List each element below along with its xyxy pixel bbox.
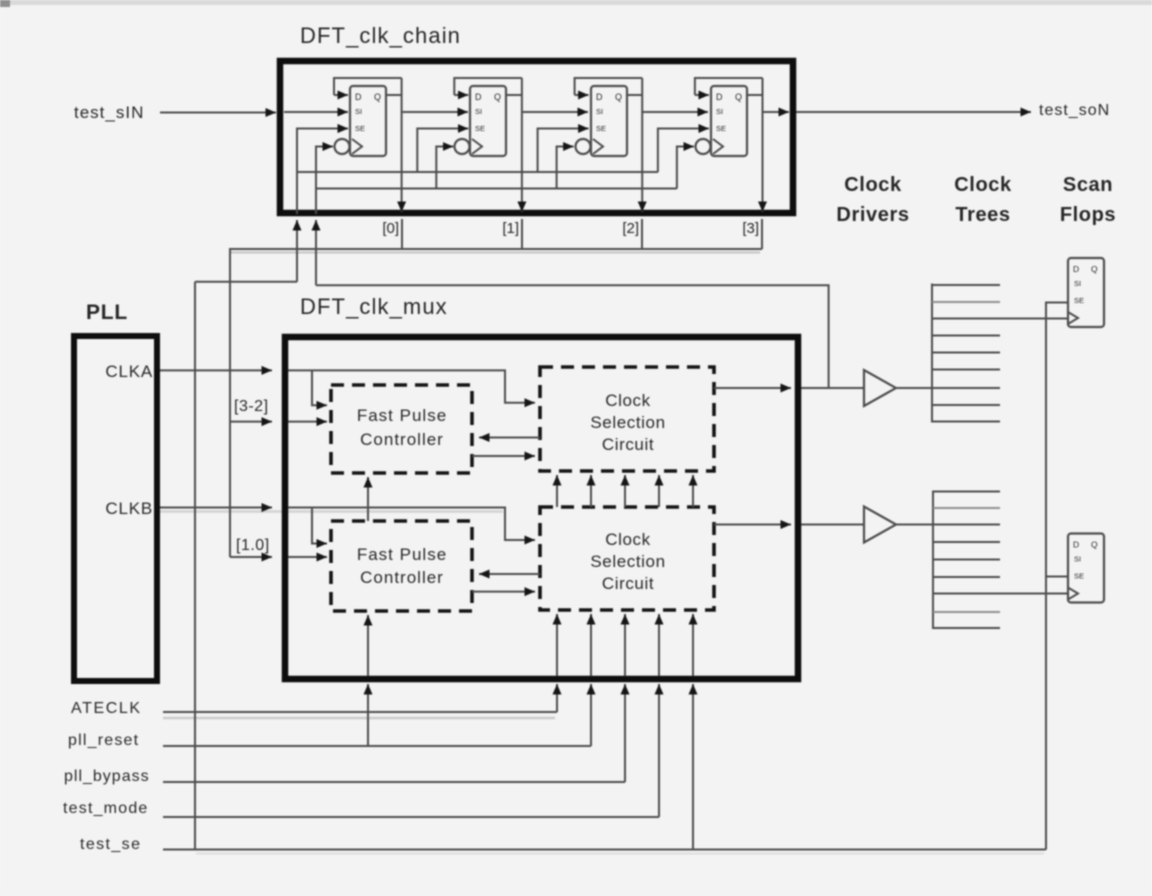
clock tree 1 [932,284,1068,423]
svg-text:Flops: Flops [1060,204,1116,226]
svg-text:DFT_clk_mux: DFT_clk_mux [300,294,448,319]
wire driver 1 to tree 1 [896,387,932,389]
wire test_se to SF2 SE [1046,576,1068,578]
block DFT_clk_chain [280,61,793,213]
wire clock riser into chain [315,220,317,285]
scan flip-flop FF3 of DFT_clk_chain [658,78,763,212]
wire CLKB to Clock Selection Circuit 2 [288,508,535,541]
svg-text:CLKA: CLKA [105,362,153,381]
svg-text:SI: SI [1074,555,1081,564]
wire SI link FF0-FF1 [402,111,468,113]
svg-text:ATECLK: ATECLK [71,700,142,717]
wire test_se to scan flops [1046,303,1068,850]
wire pll_reset [163,745,591,747]
svg-text:Selection: Selection [590,413,665,432]
svg-text:test_mode: test_mode [63,800,149,817]
svg-text:test_sIN: test_sIN [74,103,144,122]
svg-text:test_se: test_se [80,836,141,853]
wire test_se [163,849,1046,851]
wire test_se into mux bottom [692,684,694,850]
svg-text:Trees: Trees [955,204,1010,226]
svg-text:SE: SE [1074,572,1084,581]
svg-text:Q: Q [1091,264,1098,274]
svg-text:[1]: [1] [502,220,519,237]
wire CLKA to Clock Selection Circuit 1 [288,370,535,402]
wire test_se to CSC2 [692,614,694,676]
wire pll_reset to FPC1 [367,477,369,521]
svg-text:Q: Q [494,92,501,102]
svg-text:Drivers: Drivers [836,204,909,226]
wire clk riser inside chain [315,189,317,215]
svg-text:Clock: Clock [954,174,1012,196]
wire ATECLK into mux bottom [556,684,558,712]
wire FPC2 to CSC2 [472,591,535,593]
svg-text:Selection: Selection [590,552,665,571]
wire pll_bypass to CSC2 [624,614,626,676]
svg-text:D: D [355,92,362,102]
svg-text:Q: Q [735,92,742,102]
svg-text:Circuit: Circuit [602,435,654,454]
wire test_se horizontal to chain [195,281,297,283]
wire FPC1 to CSC1 [472,455,535,457]
svg-text:DFT_clk_chain: DFT_clk_chain [300,23,461,48]
svg-text:SI: SI [596,107,603,116]
wire bus [1.0] into mux [230,556,272,558]
svg-text:Fast Pulse: Fast Pulse [357,406,447,425]
svg-text:Clock: Clock [605,530,651,549]
svg-text:[3]: [3] [742,220,759,237]
svg-text:CLKB: CLKB [105,499,153,518]
block DFT_clk_mux [285,337,798,679]
wire chain tap [2] [641,219,643,249]
wire CLKB [160,507,272,509]
svg-text:D: D [1073,264,1079,274]
svg-text:[2]: [2] [622,220,639,237]
wire [3-2] to Fast Pulse Controller 1 [288,421,327,423]
wire mux clock output 1 [714,387,791,389]
wire SI link FF2-FF3 [642,111,708,113]
wire driver 2 to tree 2 [896,524,933,526]
wire [1.0] to Fast Pulse Controller 2 [288,556,327,558]
block Clock Selection Circuit 1 [540,367,714,471]
block Fast Pulse Controller 1 [331,385,472,473]
svg-text:Controller: Controller [360,568,444,587]
wire CLKA [160,369,272,371]
wire pll_bypass CSC2 to CSC1 [624,475,626,507]
wire pll_reset into mux bottom [590,684,592,746]
wire chain tap [3] [761,219,763,249]
svg-text:[0]: [0] [382,220,399,237]
wire test_se stub to FF0 SE [297,128,348,130]
svg-text:SE: SE [596,124,606,133]
scan flip-flop FF2 of DFT_clk_chain [538,78,643,212]
wire CLKB branch to Fast Pulse Controller 2 [312,508,327,544]
clock driver buffer 2 [864,507,896,543]
svg-text:Clock: Clock [605,391,651,410]
svg-text:SI: SI [475,107,482,116]
svg-text:pll_reset: pll_reset [68,732,139,749]
wire bus [3-2] into mux [230,421,272,423]
wire test_se riser inside chain [296,129,298,215]
scan flip-flop FF0 of DFT_clk_chain [297,78,402,212]
wire ATECLK CSC2 to CSC1 [556,475,558,507]
svg-text:Circuit: Circuit [602,574,654,593]
block PLL [74,336,157,681]
svg-text:D: D [716,92,723,102]
wire test_se vertical [194,282,196,850]
wire chain clock feed [316,285,829,388]
wire pll_reset to FPC2 [367,615,369,676]
svg-text:test_soN: test_soN [1039,102,1110,119]
svg-text:pll_bypass: pll_bypass [64,768,150,785]
svg-text:D: D [475,92,482,102]
wire clock output 1 to driver [801,387,864,389]
wire test_se CSC2 to CSC1 [692,475,694,507]
wire test_mode [163,816,659,818]
block Fast Pulse Controller 2 [331,521,472,611]
svg-text:[3-2]: [3-2] [234,398,269,415]
CLK bus inside chain [315,188,677,190]
clock driver buffer 1 [864,370,896,406]
svg-text:Controller: Controller [360,430,444,449]
scan flop SF1 [1068,258,1104,327]
svg-text:Q: Q [1091,540,1098,550]
wire SI link FF1-FF2 [522,111,588,113]
wire mux clock output 2 [714,524,791,526]
wire test_soN [796,111,1031,113]
wire test_soN inside chain [763,111,790,113]
wire ATECLK to CSC2 [556,614,558,676]
block Clock Selection Circuit 2 [540,507,714,610]
svg-text:D: D [596,92,603,102]
svg-text:SE: SE [475,124,485,133]
svg-text:SI: SI [716,107,723,116]
svg-text:Q: Q [615,92,622,102]
svg-text:SI: SI [355,107,362,116]
wire test_mode to CSC2 [658,614,660,676]
wire pll_bypass into mux bottom [624,684,626,782]
wire test_mode into mux bottom [658,684,660,817]
wire chain tap [0] [401,219,403,249]
wire test_sIN inside chain [284,111,348,113]
wire test_se riser into chain [296,220,298,282]
wire CSC1 to FPC1 [479,437,540,439]
SE bus inside chain [297,171,658,173]
wire pll_reset to CSC2 [590,614,592,676]
wire CSC2 to FPC2 [479,573,540,575]
wire chain tap [1] [521,219,523,249]
wire test_mode CSC2 to CSC1 [658,475,660,507]
svg-text:Clock: Clock [844,174,902,196]
svg-text:SE: SE [1074,296,1084,305]
svg-text:Fast Pulse: Fast Pulse [357,545,447,564]
wire CLKA branch to Fast Pulse Controller 1 [312,370,327,405]
wire test_sIN [160,112,276,114]
scan flip-flop FF1 of DFT_clk_chain [417,78,522,212]
wire ATECLK [163,711,557,713]
wire pll_reset CSC2 to CSC1 [590,475,592,507]
svg-text:D: D [1073,540,1079,550]
wire pll_bypass [163,781,625,783]
clock tree 2 [933,491,1068,630]
svg-text:Q: Q [374,92,381,102]
svg-text:PLL: PLL [86,301,128,324]
wire chain output bus [230,249,762,557]
wire pll_reset into mux [367,684,369,746]
svg-text:SE: SE [716,124,726,133]
svg-text:SI: SI [1074,279,1081,288]
svg-text:SE: SE [355,124,365,133]
scan flop SF2 [1068,534,1104,603]
svg-text:[1.0]: [1.0] [236,537,270,554]
svg-text:Scan: Scan [1063,174,1113,196]
wire clock output 2 to driver [801,524,864,526]
